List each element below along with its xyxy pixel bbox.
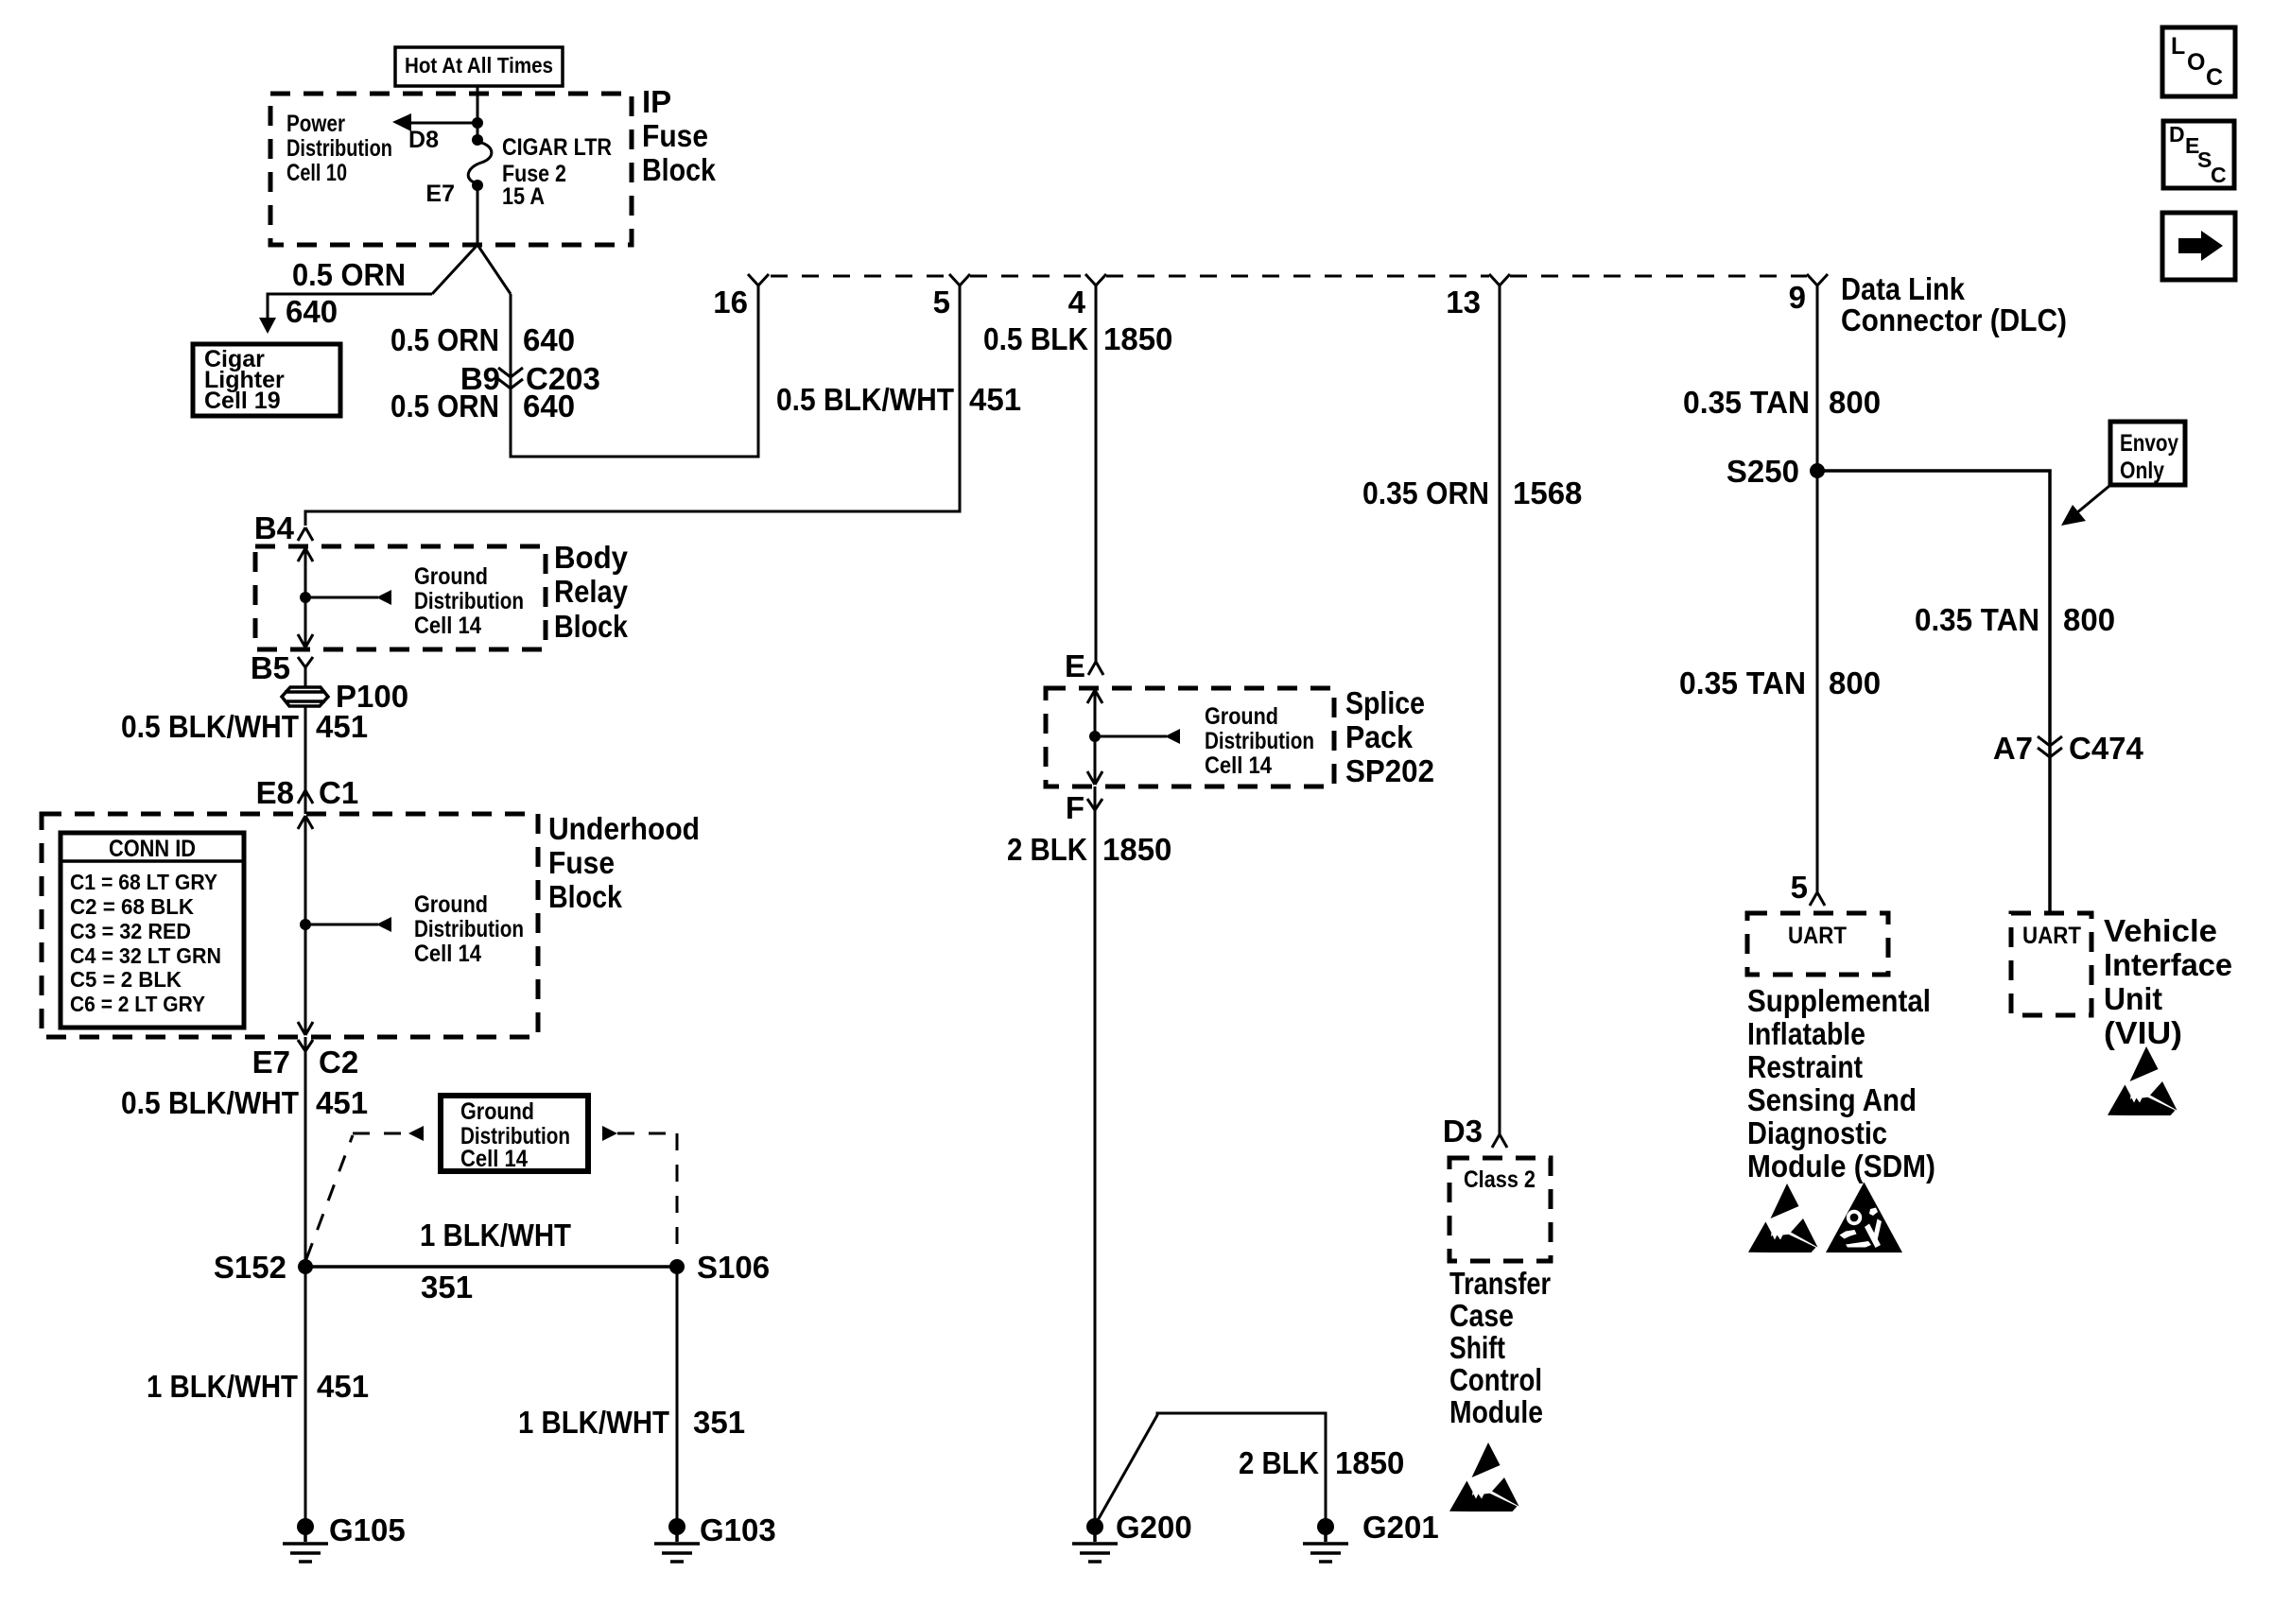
svg-text:C3 = 32 RED: C3 = 32 RED [70, 919, 191, 943]
svg-text:S250: S250 [1726, 454, 1799, 489]
connector D3 [1492, 1134, 1507, 1148]
svg-text:Block: Block [642, 152, 717, 187]
fuse F2 CIGAR LTR 15A [472, 134, 483, 146]
svg-text:Unit: Unit [2104, 981, 2162, 1016]
svg-text:B4: B4 [254, 510, 295, 545]
connector Y pin 13 [1489, 274, 1510, 285]
svg-text:0.35 TAN: 0.35 TAN [1679, 665, 1806, 700]
svg-text:SP202: SP202 [1345, 753, 1434, 788]
svg-text:800: 800 [1829, 385, 1881, 420]
svg-text:5: 5 [933, 285, 950, 320]
wire pin 5 drop to B4 [305, 285, 960, 526]
svg-text:5: 5 [1791, 870, 1808, 905]
box DESC [2163, 121, 2234, 188]
wire to ground distribution [1095, 735, 1167, 738]
svg-text:Module (SDM): Module (SDM) [1747, 1149, 1935, 1183]
svg-text:2 BLK: 2 BLK [1239, 1445, 1319, 1480]
svg-text:Only: Only [2120, 458, 2164, 484]
wire dashed bus [771, 275, 1807, 278]
svg-text:IP: IP [642, 84, 671, 119]
SIR warning triangle [1826, 1183, 1902, 1253]
connector E [1088, 662, 1103, 675]
svg-text:640: 640 [523, 322, 575, 357]
wire pin 9 drop [1816, 285, 1819, 892]
svg-text:Distribution: Distribution [1205, 728, 1314, 754]
svg-text:Control: Control [1449, 1362, 1542, 1397]
node at D8 feed [472, 117, 483, 129]
svg-text:Cell 14: Cell 14 [1205, 752, 1272, 779]
svg-text:G201: G201 [1362, 1510, 1439, 1545]
svg-text:Case: Case [1449, 1298, 1514, 1333]
wire E7/C2 to S152 [304, 1037, 307, 1267]
wire to ground distribution [305, 924, 378, 926]
ground G105 [297, 1518, 314, 1535]
svg-text:Transfer: Transfer [1449, 1266, 1551, 1301]
svg-text:451: 451 [316, 709, 368, 744]
wire S250 branch to VIU [1817, 471, 2050, 913]
svg-text:F: F [1066, 790, 1084, 825]
svg-text:Inflatable: Inflatable [1747, 1016, 1865, 1051]
svg-text:1850: 1850 [1103, 321, 1172, 356]
svg-text:4: 4 [1068, 285, 1086, 320]
svg-text:Body: Body [554, 540, 629, 575]
ESD warning triangle [1748, 1183, 1818, 1253]
svg-text:Supplemental: Supplemental [1747, 983, 1931, 1018]
svg-text:0.5 BLK/WHT: 0.5 BLK/WHT [121, 1085, 299, 1120]
svg-text:E7: E7 [252, 1045, 290, 1080]
svg-text:B5: B5 [251, 650, 290, 685]
svg-text:Distribution: Distribution [414, 916, 524, 942]
svg-text:0.5 BLK: 0.5 BLK [983, 321, 1088, 356]
svg-text:Interface: Interface [2104, 947, 2232, 982]
node [1089, 731, 1101, 742]
ground G200 [1086, 1518, 1103, 1535]
box Cigar Lighter Cell 19 [193, 344, 340, 416]
splice S106 [669, 1259, 685, 1274]
svg-text:Power: Power [286, 111, 345, 137]
svg-text:Sensing And: Sensing And [1747, 1082, 1917, 1117]
svg-text:640: 640 [286, 294, 338, 329]
IP fuse block (dashed) [270, 94, 632, 245]
wire P100 to E8 [304, 706, 307, 814]
svg-text:351: 351 [421, 1270, 473, 1304]
connector Y pin 5 [949, 274, 970, 285]
svg-text:Class 2: Class 2 [1464, 1166, 1536, 1193]
dashed link S152 to ground distribution cell [306, 1133, 408, 1259]
svg-text:Cell 14: Cell 14 [460, 1146, 528, 1172]
svg-text:C474: C474 [2069, 731, 2144, 766]
wire through splice pack [1087, 690, 1102, 785]
Body Relay Block (dashed) [255, 546, 546, 649]
splice S250 [1810, 463, 1825, 478]
svg-text:1850: 1850 [1102, 832, 1171, 867]
svg-text:Cell 19: Cell 19 [204, 388, 281, 414]
connector B5 [298, 657, 313, 667]
svg-text:640: 640 [523, 389, 575, 423]
svg-text:C6 = 2 LT GRY: C6 = 2 LT GRY [70, 992, 205, 1016]
svg-text:Connector (DLC): Connector (DLC) [1841, 302, 2067, 337]
svg-text:Pack: Pack [1345, 719, 1414, 754]
wire right branch to bus [511, 285, 758, 457]
svg-text:13: 13 [1446, 285, 1481, 320]
svg-text:Block: Block [554, 609, 629, 644]
svg-text:0.5 ORN: 0.5 ORN [292, 257, 406, 292]
svg-text:Ground: Ground [414, 891, 488, 918]
Class 2 box (dashed) [1449, 1158, 1551, 1261]
svg-text:Splice: Splice [1345, 685, 1425, 720]
svg-text:0.5 BLK/WHT: 0.5 BLK/WHT [121, 709, 299, 744]
connector C203 B9 [498, 368, 523, 389]
svg-text:1 BLK/WHT: 1 BLK/WHT [420, 1218, 571, 1253]
svg-text:(VIU): (VIU) [2104, 1015, 2182, 1050]
svg-text:E8: E8 [256, 775, 294, 810]
svg-text:E7: E7 [425, 181, 455, 207]
svg-text:Shift: Shift [1449, 1330, 1505, 1365]
SDM UART box (dashed) [1747, 913, 1888, 975]
svg-text:D: D [2169, 122, 2185, 147]
svg-text:Distribution: Distribution [286, 135, 392, 162]
connector Y pin 9 [1807, 274, 1828, 285]
svg-text:D3: D3 [1443, 1114, 1483, 1149]
svg-text:1850: 1850 [1335, 1445, 1404, 1480]
svg-text:Cell 14: Cell 14 [414, 613, 481, 639]
box LOC [2162, 27, 2235, 96]
connector P100 [282, 687, 328, 706]
connector Y pin 4 [1085, 274, 1106, 285]
Underhood Fuse Block (dashed) [42, 814, 538, 1037]
svg-text:Ground: Ground [414, 563, 488, 590]
arrow to power distribution [408, 122, 477, 125]
svg-text:451: 451 [317, 1369, 369, 1404]
svg-text:Vehicle: Vehicle [2104, 913, 2217, 948]
node [300, 919, 311, 930]
connector F [1087, 799, 1102, 810]
wire through body relay block [298, 548, 313, 648]
svg-text:1 BLK/WHT: 1 BLK/WHT [147, 1369, 298, 1404]
svg-text:E: E [1065, 648, 1085, 683]
connector C474 A7 [2038, 736, 2062, 757]
svg-text:1 BLK/WHT: 1 BLK/WHT [518, 1405, 669, 1440]
wire pin 4 drop [1095, 285, 1098, 662]
svg-text:UART: UART [2022, 923, 2081, 949]
svg-text:C1 = 68 LT GRY: C1 = 68 LT GRY [70, 870, 217, 894]
connector B4 [298, 527, 313, 541]
box Hot At All Times [395, 47, 563, 86]
svg-text:800: 800 [2063, 602, 2115, 637]
wire through underhood fuse block [298, 816, 313, 1035]
svg-text:CIGAR LTR: CIGAR LTR [502, 134, 612, 161]
arrow Envoy Only to wire [2076, 486, 2109, 513]
svg-text:0.5 BLK/WHT: 0.5 BLK/WHT [776, 382, 954, 417]
svg-text:UART: UART [1788, 923, 1847, 949]
node [300, 592, 311, 603]
wire F to G200 [1094, 786, 1097, 1519]
svg-text:Restraint: Restraint [1747, 1049, 1863, 1084]
wire fuse output [477, 185, 479, 245]
svg-text:Hot At All Times: Hot At All Times [405, 53, 553, 78]
svg-text:800: 800 [1829, 665, 1881, 700]
svg-text:A7: A7 [1993, 731, 2033, 766]
svg-text:Envoy: Envoy [2120, 430, 2178, 457]
svg-text:2 BLK: 2 BLK [1007, 832, 1087, 867]
box Ground Distribution Cell 14 [441, 1096, 588, 1171]
svg-text:G103: G103 [700, 1512, 776, 1547]
ESD warning triangle [2108, 1046, 2178, 1115]
svg-text:G200: G200 [1116, 1510, 1192, 1545]
svg-text:G105: G105 [329, 1512, 406, 1547]
svg-text:Fuse: Fuse [642, 118, 708, 153]
ESD warning triangle [1449, 1443, 1519, 1512]
svg-text:C1: C1 [319, 775, 358, 810]
wire branch G200 to G201 [1097, 1413, 1326, 1522]
svg-text:16: 16 [713, 285, 748, 320]
ground G103 [668, 1518, 685, 1535]
svg-text:1568: 1568 [1513, 475, 1582, 510]
svg-text:Ground: Ground [460, 1098, 534, 1125]
wire S152 to S106 [305, 1265, 677, 1269]
wire from Hot box to fuse [477, 86, 479, 140]
svg-text:15 A: 15 A [502, 183, 545, 210]
box Envoy Only [2110, 422, 2185, 485]
Splice Pack SP202 (dashed) [1046, 688, 1334, 786]
wire to ground distribution [305, 596, 378, 599]
svg-text:Ground: Ground [1205, 703, 1278, 730]
svg-text:D8: D8 [408, 127, 439, 153]
ground G201 [1317, 1518, 1334, 1535]
connector E8 C1 [298, 790, 313, 803]
svg-text:9: 9 [1789, 280, 1806, 315]
svg-text:C: C [2206, 64, 2223, 91]
svg-text:Distribution: Distribution [414, 588, 524, 614]
svg-text:O: O [2187, 49, 2205, 76]
svg-text:0.35 ORN: 0.35 ORN [1362, 475, 1489, 510]
wire S152 to G105 [304, 1267, 307, 1519]
svg-text:S106: S106 [697, 1250, 770, 1285]
svg-text:Data Link: Data Link [1841, 271, 1966, 306]
connector E7 C2 [298, 1040, 313, 1051]
svg-text:C5 = 2 BLK: C5 = 2 BLK [70, 967, 182, 992]
svg-text:0.35 TAN: 0.35 TAN [1683, 385, 1810, 420]
svg-text:Relay: Relay [554, 574, 629, 609]
svg-text:Module: Module [1449, 1394, 1543, 1429]
svg-text:451: 451 [969, 382, 1021, 417]
svg-text:C2 = 68 BLK: C2 = 68 BLK [70, 894, 194, 919]
connector Y pin 16 [748, 274, 769, 285]
svg-text:451: 451 [316, 1085, 368, 1120]
svg-text:Diagnostic: Diagnostic [1747, 1115, 1887, 1150]
VIU UART box (dashed) [2011, 913, 2091, 1015]
box arrow (next page) [2162, 213, 2235, 280]
CONN ID table [61, 833, 244, 1028]
svg-text:Fuse: Fuse [548, 845, 615, 880]
svg-text:351: 351 [693, 1405, 745, 1440]
svg-text:C4 = 32 LT GRN: C4 = 32 LT GRN [70, 943, 221, 968]
svg-text:Block: Block [548, 879, 623, 914]
wire S106 to G103 [676, 1267, 679, 1519]
svg-text:Cell 10: Cell 10 [286, 160, 347, 186]
svg-text:CONN ID: CONN ID [109, 836, 196, 862]
svg-text:S152: S152 [214, 1250, 286, 1285]
wire Y-split below fuse block [432, 245, 511, 294]
wire pin 13 drop [1499, 285, 1501, 1134]
splice S152 [298, 1259, 313, 1274]
wire left branch to cigar lighter [268, 294, 432, 320]
wire B5 to P100 [304, 667, 307, 687]
svg-text:0.5 ORN: 0.5 ORN [390, 322, 499, 357]
svg-text:0.5 ORN: 0.5 ORN [390, 389, 499, 423]
svg-text:C2: C2 [319, 1045, 358, 1080]
svg-text:L: L [2171, 33, 2185, 60]
svg-text:Cell 14: Cell 14 [414, 941, 481, 967]
svg-text:0.35 TAN: 0.35 TAN [1915, 602, 2039, 637]
svg-text:Underhood: Underhood [548, 811, 700, 846]
dashed link ground distribution cell to S106 [602, 1126, 617, 1141]
svg-text:C: C [2211, 163, 2227, 187]
